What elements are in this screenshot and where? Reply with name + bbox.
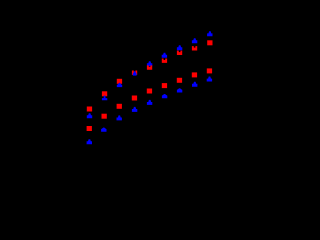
nitrogen atom N14 (177, 88, 182, 92)
nitrogen atom N8 (132, 107, 137, 112)
nitrogen atom N5 (117, 83, 122, 88)
nitrogen atom N4 (101, 128, 106, 132)
oxygen atom O13 (177, 51, 182, 55)
nitrogen atom N13 (177, 45, 182, 50)
nitrogen atom N15 (192, 38, 197, 43)
nitrogen atom N16 (192, 82, 197, 87)
nitrogen atom N3 (102, 96, 107, 101)
oxygen atom O9 (147, 65, 152, 69)
nitrogen atom N10 (147, 100, 152, 105)
nitrogen atom N12 (162, 94, 167, 98)
nitrogen atom N7 (133, 71, 137, 76)
oxygen atom O7 (132, 71, 137, 75)
oxygen atom O3 (102, 91, 107, 96)
nitrogen atom N6 (117, 115, 122, 120)
oxygen atom O4 (102, 114, 107, 119)
oxygen atom O1 (87, 107, 92, 112)
nitrogen atom N18 (207, 77, 212, 82)
oxygen atom O5 (117, 79, 122, 84)
nitrogen atom N17 (207, 31, 212, 36)
nitrogen atom N11 (162, 53, 167, 58)
oxygen atom O16 (192, 72, 197, 77)
oxygen atom O8 (132, 96, 137, 101)
oxygen atom O11 (162, 59, 167, 63)
oxygen atom O18 (207, 68, 212, 73)
oxygen atom O12 (162, 83, 167, 88)
oxygen atom O15 (192, 46, 197, 50)
oxygen atom O2 (87, 126, 92, 131)
oxygen atom O6 (117, 104, 122, 109)
nitrogen atom N2 (87, 139, 92, 144)
oxygen atom O14 (177, 78, 182, 83)
oxygen atom O10 (147, 89, 152, 94)
oxygen atom O17 (207, 40, 212, 45)
nitrogen atom N1 (87, 113, 92, 118)
nitrogen atom N9 (147, 61, 152, 66)
